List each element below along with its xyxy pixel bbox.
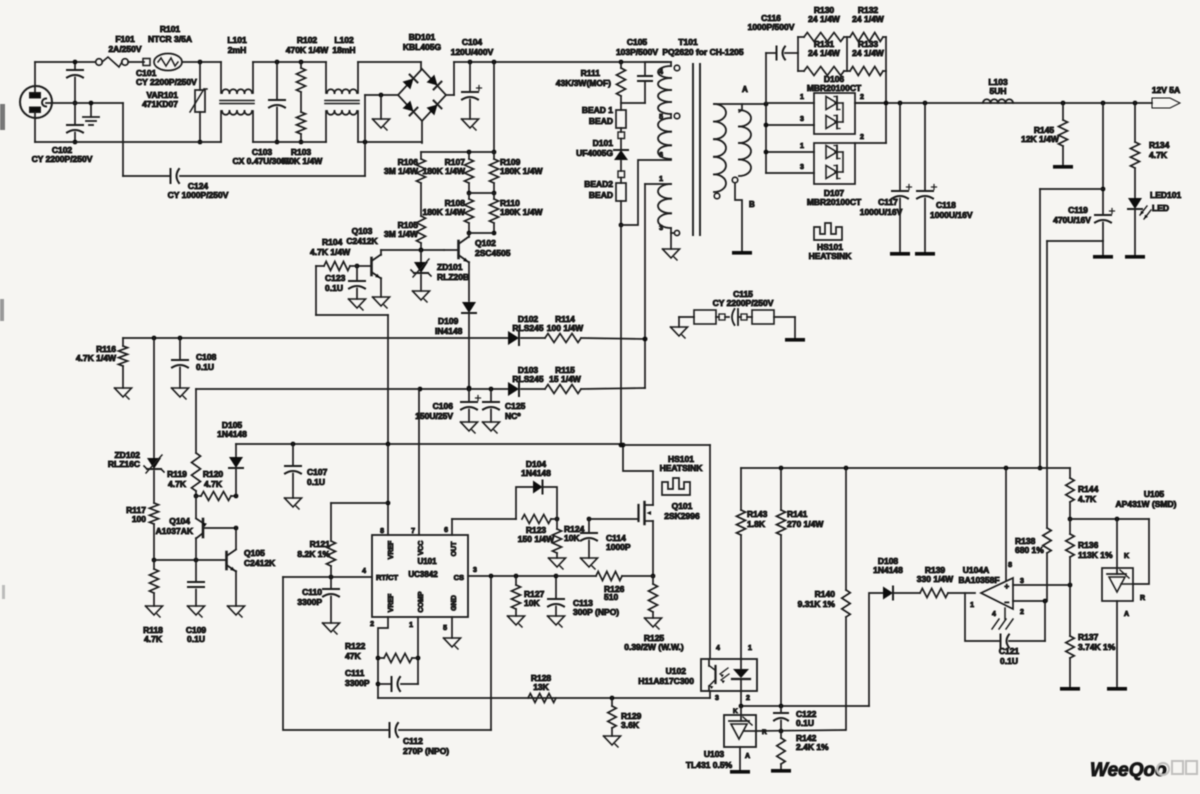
svg-text:2: 2 xyxy=(860,134,864,141)
resistor R141 xyxy=(777,468,825,706)
svg-text:10K: 10K xyxy=(564,533,580,543)
svg-text:CY 2200P/250V: CY 2200P/250V xyxy=(32,154,93,164)
svg-text:5: 5 xyxy=(659,114,663,121)
svg-text:R102: R102 xyxy=(297,35,318,45)
svg-text:3: 3 xyxy=(659,225,663,232)
U101 pin 6 wire xyxy=(444,519,452,535)
svg-text:4.7K: 4.7K xyxy=(1149,150,1168,160)
svg-text:RLS245: RLS245 xyxy=(512,323,543,333)
svg-text:1: 1 xyxy=(748,645,752,652)
wire bottom bus left xyxy=(35,112,221,142)
ground at bridge left xyxy=(373,95,390,130)
svg-text:H11A817C300: H11A817C300 xyxy=(638,676,694,686)
svg-text:5UH: 5UH xyxy=(989,86,1006,96)
svg-text:180K 1/4W: 180K 1/4W xyxy=(500,207,543,217)
svg-text:4.7K 1/4W: 4.7K 1/4W xyxy=(76,353,117,363)
resistor R122 xyxy=(345,641,418,663)
svg-text:24 1/4W: 24 1/4W xyxy=(852,14,885,24)
capacitor C109 xyxy=(186,560,207,644)
resistor R145 xyxy=(1021,103,1073,169)
transistor Q104 xyxy=(156,496,239,560)
svg-text:RT/CT: RT/CT xyxy=(376,573,398,582)
svg-text:270P (NPO): 270P (NPO) xyxy=(403,746,449,756)
svg-text:+: + xyxy=(1004,582,1009,591)
svg-text:1000U/16V: 1000U/16V xyxy=(860,207,903,217)
ground bar at U105 xyxy=(1107,601,1127,691)
svg-text:R143: R143 xyxy=(747,509,768,519)
transformer T101 aux winding xyxy=(645,176,680,236)
svg-text:PQ2620 for CH-1205: PQ2620 for CH-1205 xyxy=(662,47,744,57)
wire drain feed xyxy=(621,443,653,471)
resistor R129 xyxy=(604,698,642,747)
svg-text:2: 2 xyxy=(370,621,374,628)
resistor R125 xyxy=(624,576,684,652)
ground bar at C115 right xyxy=(785,317,805,342)
svg-text:C110: C110 xyxy=(302,587,322,597)
wire T101 pin1 feed xyxy=(643,184,648,388)
resistor R127 xyxy=(508,576,545,627)
svg-text:R120: R120 xyxy=(203,469,224,479)
svg-text:1.8K: 1.8K xyxy=(747,519,766,529)
resistor R111 xyxy=(556,62,626,103)
diode D104 xyxy=(516,459,557,519)
svg-text:8: 8 xyxy=(380,528,384,535)
fuse F101 xyxy=(96,34,142,67)
svg-text:8: 8 xyxy=(1008,562,1012,569)
svg-text:R111: R111 xyxy=(581,68,601,78)
svg-text:CY 2200P/250V: CY 2200P/250V xyxy=(713,298,774,308)
svg-text:RLZ16C: RLZ16C xyxy=(108,459,140,469)
svg-text:R137: R137 xyxy=(1078,632,1099,642)
svg-text:3.74K 1%: 3.74K 1% xyxy=(1078,642,1116,652)
svg-text:4.7K 1/4W: 4.7K 1/4W xyxy=(310,247,351,257)
wire opto pin2 node xyxy=(739,691,869,708)
svg-text:U101: U101 xyxy=(417,557,437,566)
op-amp U104A xyxy=(958,562,1024,618)
svg-text:C111: C111 xyxy=(345,668,365,678)
svg-text:1000P: 1000P xyxy=(606,542,631,552)
resistor R133 xyxy=(847,39,886,76)
svg-text:Q102: Q102 xyxy=(475,238,496,248)
svg-text:RLS245: RLS245 xyxy=(512,374,543,384)
svg-text:C2412K: C2412K xyxy=(346,236,378,246)
wire bridge right to HV bus xyxy=(446,60,668,95)
svg-text:0.1U: 0.1U xyxy=(1000,656,1018,666)
optocoupler U102 xyxy=(638,645,757,702)
resistor R136 xyxy=(1066,519,1113,585)
capacitor C101 xyxy=(67,60,197,106)
svg-text:C112: C112 xyxy=(403,736,423,746)
wire bottom bus mid xyxy=(253,141,326,143)
diode D107 MBR20100CT xyxy=(764,134,886,207)
svg-text:Q105: Q105 xyxy=(244,548,265,558)
resistor R119 xyxy=(167,389,200,498)
U101 pin 1 wire xyxy=(409,617,420,684)
svg-text:R136: R136 xyxy=(1078,540,1099,550)
AC plug J101 xyxy=(20,86,52,118)
svg-text:BEAD2: BEAD2 xyxy=(584,179,613,189)
diode D109 xyxy=(435,262,476,390)
U101 pin 7 wire xyxy=(411,389,419,535)
svg-text:24 1/4W: 24 1/4W xyxy=(808,48,841,58)
svg-text:0.1U: 0.1U xyxy=(187,634,205,644)
ground at C115 left xyxy=(671,317,688,338)
svg-text:510: 510 xyxy=(604,592,618,602)
wire bridge top xyxy=(420,62,422,69)
scan artifact xyxy=(0,104,5,599)
capacitor C116 xyxy=(748,13,798,103)
svg-text:270 1/4W: 270 1/4W xyxy=(787,519,824,529)
wire divider top xyxy=(421,150,494,155)
svg-text:1N4148: 1N4148 xyxy=(521,468,551,478)
bottom feedback bus xyxy=(378,691,710,700)
svg-text:113K 1%: 113K 1% xyxy=(1078,550,1113,560)
svg-text:C117: C117 xyxy=(878,197,898,207)
svg-text:150U/25V: 150U/25V xyxy=(415,411,453,421)
svg-text:150 1/4W: 150 1/4W xyxy=(518,534,555,544)
capacitor C115 network xyxy=(679,289,795,325)
aux bus xyxy=(196,387,508,392)
svg-text:2mH: 2mH xyxy=(228,45,246,55)
diode D101 xyxy=(576,138,628,171)
capacitor C113 xyxy=(548,574,620,627)
svg-text:24 1/4W: 24 1/4W xyxy=(852,48,885,58)
svg-text:C119: C119 xyxy=(1068,205,1088,215)
op-amp + input wire xyxy=(1013,583,1072,588)
svg-text:HEATSINK: HEATSINK xyxy=(660,463,704,473)
diode D103 xyxy=(508,365,545,396)
diode D105 xyxy=(217,420,247,496)
resistor R132 xyxy=(847,5,886,42)
svg-text:180K 1/4W: 180K 1/4W xyxy=(500,166,543,176)
node A xyxy=(742,85,748,94)
svg-text:3: 3 xyxy=(800,116,804,123)
gate drive wire xyxy=(452,517,591,522)
svg-text:4: 4 xyxy=(659,69,663,76)
svg-text:18mH: 18mH xyxy=(332,45,355,55)
LED LED101 xyxy=(1125,190,1181,259)
capacitor C103 xyxy=(232,62,291,166)
resistor R114 xyxy=(545,314,647,343)
svg-text:D109: D109 xyxy=(438,316,459,326)
inductor L103 xyxy=(983,77,1013,103)
svg-text:BEAD 1: BEAD 1 xyxy=(582,105,613,115)
svg-text:0.1U: 0.1U xyxy=(307,477,325,487)
transformer T101 primary xyxy=(645,37,744,159)
svg-text:1: 1 xyxy=(409,622,413,629)
resistor R142 xyxy=(771,731,829,773)
U101 pin 5 ground xyxy=(443,617,460,649)
resistor R128 xyxy=(528,673,556,703)
wire secondary return B xyxy=(735,183,755,251)
svg-text:L102: L102 xyxy=(334,35,354,45)
output bus xyxy=(855,101,1152,106)
varistor VAR101 xyxy=(142,62,207,144)
VCC bus xyxy=(123,336,508,341)
svg-text:C108: C108 xyxy=(196,352,217,362)
svg-text:300P (NPO): 300P (NPO) xyxy=(573,607,619,617)
svg-text:2A/250V: 2A/250V xyxy=(108,44,141,54)
svg-text:C2412K: C2412K xyxy=(244,558,276,568)
svg-text:TL431 0.5%: TL431 0.5% xyxy=(686,760,733,770)
svg-text:MBR20100CT: MBR20100CT xyxy=(807,197,862,207)
svg-text:2SK2996: 2SK2996 xyxy=(664,511,700,521)
svg-text:1000P/500V: 1000P/500V xyxy=(748,22,795,32)
svg-text:CY 2200P/250V: CY 2200P/250V xyxy=(136,77,197,87)
transformer T101 secondary xyxy=(714,104,751,199)
svg-text:470K 1/4W: 470K 1/4W xyxy=(280,156,323,166)
svg-text:C105: C105 xyxy=(627,37,648,47)
wire rectifier input rail xyxy=(765,104,767,173)
svg-text:4.7K: 4.7K xyxy=(168,479,187,489)
svg-text:100: 100 xyxy=(132,514,146,524)
resistor R118 xyxy=(143,560,163,644)
svg-text:C123: C123 xyxy=(325,273,346,283)
op-amp - input wire xyxy=(1013,599,1047,604)
svg-text:U102: U102 xyxy=(666,666,687,676)
svg-text:1: 1 xyxy=(800,94,804,101)
resistor R115 xyxy=(545,365,645,394)
svg-text:0.1U: 0.1U xyxy=(196,362,214,372)
diode D102 xyxy=(508,314,545,345)
capacitor C125 xyxy=(483,389,526,433)
earth ground at plug xyxy=(83,101,99,125)
svg-text:RLZ20B: RLZ20B xyxy=(437,272,469,282)
ground at aux winding xyxy=(663,233,680,260)
svg-text:471KD07: 471KD07 xyxy=(142,99,178,109)
svg-text:OUT: OUT xyxy=(451,541,458,557)
svg-text:U103: U103 xyxy=(704,749,725,759)
wire pin6 link xyxy=(621,160,671,225)
capacitor C119 xyxy=(1053,103,1114,259)
svg-text:Q103: Q103 xyxy=(352,226,373,236)
base bus Q105 xyxy=(154,558,226,563)
thermistor R101 NTCR 3/5A xyxy=(148,24,192,71)
svg-text:13K: 13K xyxy=(533,682,549,692)
resistor R104 xyxy=(310,237,357,271)
svg-text:CY 1000P/250V: CY 1000P/250V xyxy=(168,190,229,200)
svg-text:LED: LED xyxy=(1152,203,1169,213)
wire gate xyxy=(589,518,637,520)
svg-text:2.4K 1%: 2.4K 1% xyxy=(796,742,829,752)
wire bridge left xyxy=(365,93,398,98)
zener ZD101 xyxy=(411,250,469,302)
wire L101 to C103 xyxy=(253,60,326,65)
wire D108 branch xyxy=(869,593,883,706)
svg-text:R119: R119 xyxy=(167,469,187,479)
transformer T101 core xyxy=(693,64,700,235)
svg-text:F101: F101 xyxy=(115,34,135,44)
svg-text:103P/500V: 103P/500V xyxy=(616,47,658,57)
ground bar at B xyxy=(732,251,752,255)
svg-text:LED101: LED101 xyxy=(1150,190,1181,200)
svg-text:3300P: 3300P xyxy=(345,678,370,688)
svg-text:R121: R121 xyxy=(310,539,331,549)
capacitor C110 xyxy=(297,577,339,634)
svg-text:UC3842: UC3842 xyxy=(408,570,438,579)
svg-text:NTCR 3/5A: NTCR 3/5A xyxy=(148,34,192,44)
heatsink HS101 at Q101 xyxy=(660,454,704,495)
svg-text:180K 1/4W: 180K 1/4W xyxy=(422,207,465,217)
svg-text:R140: R140 xyxy=(815,589,836,599)
U101 pin 4 wire xyxy=(283,568,372,579)
svg-text:4.7K: 4.7K xyxy=(144,634,163,644)
capacitor C111 xyxy=(345,668,418,691)
heatsink boundary wire xyxy=(623,445,710,658)
resistor R137 xyxy=(1060,585,1116,691)
svg-text:A: A xyxy=(1124,611,1129,618)
svg-text:8.2K 1%: 8.2K 1% xyxy=(297,549,330,559)
wire NTC to L101 xyxy=(182,60,221,65)
capacitor C105 xyxy=(616,37,658,103)
resistor R121 xyxy=(297,503,388,577)
svg-text:Q101: Q101 xyxy=(672,501,693,511)
svg-text:470U/16V: 470U/16V xyxy=(1053,215,1091,225)
wire R104 feed xyxy=(316,266,388,444)
resistor R106 xyxy=(384,152,426,216)
svg-text:U104A: U104A xyxy=(963,565,989,575)
svg-text:T101: T101 xyxy=(678,37,698,47)
svg-text:2: 2 xyxy=(1020,609,1024,616)
svg-text:R134: R134 xyxy=(1149,140,1170,150)
transistor Q103 xyxy=(346,226,381,279)
capacitor C102 xyxy=(32,103,93,164)
wire plug mid xyxy=(46,102,123,104)
U101 pin 3 wire xyxy=(468,567,556,578)
svg-text:GND: GND xyxy=(451,595,458,611)
wire plug top to top bus xyxy=(35,62,95,92)
capacitor C108 xyxy=(172,338,217,399)
svg-text:180K 1/4W: 180K 1/4W xyxy=(422,166,465,176)
svg-text:2: 2 xyxy=(860,94,864,101)
svg-text:VREF: VREF xyxy=(388,593,395,612)
svg-text:BEAD: BEAD xyxy=(589,190,613,200)
resistor R126 xyxy=(596,572,653,603)
resistor R109 xyxy=(490,152,544,195)
svg-text:24 1/4W: 24 1/4W xyxy=(808,14,841,24)
resistor R123 xyxy=(518,515,557,545)
svg-text:3: 3 xyxy=(715,695,719,702)
svg-text:K: K xyxy=(733,708,738,715)
resistor R139 xyxy=(917,565,975,598)
svg-text:HEATSINK: HEATSINK xyxy=(809,251,853,261)
capacitor C104 xyxy=(451,37,494,130)
ground at Q105 emitter xyxy=(228,606,245,617)
wire bridge bottom xyxy=(421,121,423,143)
svg-text:1N4148: 1N4148 xyxy=(873,565,903,575)
watermark xyxy=(1090,760,1197,781)
wire secondary to node A xyxy=(714,102,768,107)
transistor Q102 xyxy=(444,233,511,263)
svg-text:1000U/16V: 1000U/16V xyxy=(930,210,973,220)
wire R107-R109 join xyxy=(469,192,494,194)
shunt regulator U103 TL431 xyxy=(686,706,767,770)
resistor R102 xyxy=(286,35,329,112)
svg-text:2: 2 xyxy=(746,695,750,702)
svg-text:1: 1 xyxy=(800,143,804,150)
svg-text:B: B xyxy=(749,200,755,209)
capacitor C118 xyxy=(915,103,973,256)
svg-text:R101: R101 xyxy=(160,24,181,34)
svg-text:R104: R104 xyxy=(322,237,343,247)
capacitor C122 xyxy=(774,706,817,731)
TL431 ref wire xyxy=(756,729,845,734)
capacitor C124 xyxy=(123,95,365,200)
wire R108-R110 join xyxy=(469,232,494,234)
resistor R108 xyxy=(422,193,473,235)
resistor R144 xyxy=(1066,468,1099,521)
svg-text:VREF: VREF xyxy=(388,540,395,559)
svg-text:0.1U: 0.1U xyxy=(796,718,814,728)
svg-text:47K: 47K xyxy=(345,651,361,661)
svg-text:−: − xyxy=(1004,598,1009,607)
svg-text:3300P: 3300P xyxy=(297,597,322,607)
svg-text:100 1/4W: 100 1/4W xyxy=(547,323,584,333)
svg-text:9.31K 1%: 9.31K 1% xyxy=(798,599,836,609)
svg-text:3M 1/4W: 3M 1/4W xyxy=(384,166,419,176)
svg-text:ZD101: ZD101 xyxy=(437,262,463,272)
svg-text:470K 1/4W: 470K 1/4W xyxy=(286,45,329,55)
heatsink HS101 secondary xyxy=(809,223,853,261)
shunt regulator U105 AP431W xyxy=(1070,489,1177,618)
wire L102 to bridge top xyxy=(358,61,421,63)
svg-text:5: 5 xyxy=(443,625,447,632)
svg-text:0.39/2W (W.W.): 0.39/2W (W.W.) xyxy=(624,642,684,652)
svg-text:1N4148: 1N4148 xyxy=(217,429,247,439)
svg-text:0.1U: 0.1U xyxy=(325,283,343,293)
svg-text:4.7K: 4.7K xyxy=(204,479,223,489)
svg-text:R144: R144 xyxy=(1078,484,1099,494)
capacitor C121 xyxy=(965,593,1045,666)
svg-text:120U/400V: 120U/400V xyxy=(451,47,494,57)
svg-text:3: 3 xyxy=(473,567,477,574)
diode D106 MBR20100CT xyxy=(764,74,886,134)
common-mode choke L101 xyxy=(220,35,254,142)
svg-text:3.6K: 3.6K xyxy=(621,720,640,730)
svg-text:Q104: Q104 xyxy=(169,516,190,526)
resistor R105 xyxy=(384,216,426,252)
svg-text:IN4148: IN4148 xyxy=(435,326,463,336)
wire bottom bus right xyxy=(358,140,422,145)
wire sense line A xyxy=(1038,189,1103,470)
svg-text:4: 4 xyxy=(992,611,996,618)
resistor R120 xyxy=(196,469,238,501)
feedback bus xyxy=(741,466,1070,471)
svg-text:BD101: BD101 xyxy=(409,32,436,42)
svg-text:330 1/4W: 330 1/4W xyxy=(917,574,954,584)
U101 pin 2 wire xyxy=(370,617,388,698)
resistor R110 xyxy=(490,193,544,235)
svg-text:AP431W (SMD): AP431W (SMD) xyxy=(1116,499,1177,509)
svg-text:K: K xyxy=(1124,553,1129,560)
svg-text:1: 1 xyxy=(659,176,663,183)
svg-text:WeeQoo: WeeQoo xyxy=(1090,760,1167,781)
resistor R134 xyxy=(1131,103,1170,198)
svg-text:4: 4 xyxy=(362,568,366,575)
svg-text:C106: C106 xyxy=(433,401,454,411)
resistor R124 xyxy=(549,519,585,569)
svg-text:U105: U105 xyxy=(1144,489,1165,499)
capacitor C117 xyxy=(860,103,912,256)
svg-text:1: 1 xyxy=(970,602,974,609)
wire primary return xyxy=(619,225,624,447)
svg-text:C121: C121 xyxy=(999,646,1020,656)
capacitor C106 xyxy=(415,389,480,433)
svg-text:4.7K: 4.7K xyxy=(1078,494,1097,504)
common-mode choke L102 xyxy=(325,35,359,142)
svg-text:C118: C118 xyxy=(936,200,956,210)
ferrite bead BEAD2 xyxy=(584,171,626,227)
